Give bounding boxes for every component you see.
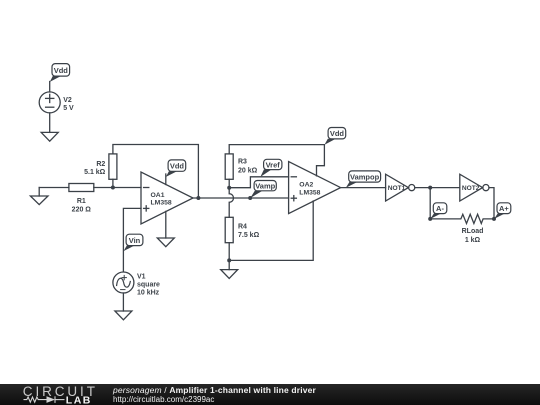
svg-text:V2: V2	[63, 97, 72, 104]
footer title text	[113, 385, 316, 395]
label R1 220 ohm	[72, 198, 92, 213]
ground (OA1 V-)	[157, 238, 174, 247]
op-amp OA2	[289, 162, 341, 214]
svg-text:Vref: Vref	[266, 160, 281, 169]
svg-text:220 Ω: 220 Ω	[72, 207, 92, 214]
wire node to ground	[228, 260, 230, 269]
inverter NOT2	[460, 174, 489, 201]
svg-text:R4: R4	[238, 224, 247, 231]
resistor R1	[69, 184, 94, 192]
svg-text:Vdd: Vdd	[170, 162, 185, 171]
svg-text:NOT2: NOT2	[462, 185, 480, 192]
footer url text	[113, 395, 214, 404]
wire OA2 output to NOT1	[341, 187, 386, 189]
wire NOT1 out to NOT2 in	[415, 187, 460, 189]
node junction Vamp tap	[248, 196, 252, 200]
svg-text:10 kHz: 10 kHz	[137, 289, 160, 296]
net flag A-	[430, 203, 447, 219]
wire V2 bottom to ground	[49, 113, 51, 132]
svg-text:5 V: 5 V	[63, 105, 74, 112]
node junction OA1 output	[196, 196, 200, 200]
net flag A+	[494, 203, 511, 219]
net flag Vdd (at OA1 V+)	[166, 160, 186, 177]
wire A- branch down	[429, 188, 431, 219]
wire divider to OA2 inverting input (Vref net)	[229, 177, 288, 188]
svg-text:R3: R3	[238, 158, 247, 165]
svg-text:square: square	[137, 281, 160, 288]
svg-text:Vampop: Vampop	[350, 172, 380, 181]
svg-text:V1: V1	[137, 273, 146, 280]
svg-text:5.1 kΩ: 5.1 kΩ	[84, 169, 106, 176]
ground (below V2)	[41, 132, 58, 141]
op-amp OA1	[141, 172, 193, 224]
wire R1 to OA1 inverting input	[94, 187, 141, 189]
svg-text:1 kΩ: 1 kΩ	[465, 237, 481, 244]
wire divider node down with hop over output wire	[229, 188, 233, 218]
svg-text:A+: A+	[499, 204, 509, 213]
svg-text:R1: R1	[77, 198, 86, 205]
ground (below V1)	[115, 311, 132, 320]
resistor RLoad (zigzag)	[430, 214, 494, 223]
node junction A+	[492, 217, 496, 221]
resistor R2	[109, 154, 117, 179]
wire R4 bottom to ground node	[228, 243, 230, 261]
svg-text:NOT1: NOT1	[388, 185, 406, 192]
label RLoad 1 kohm	[462, 228, 484, 244]
net flag Vamp	[250, 181, 276, 199]
net flag Vdd (at OA2 V+)	[325, 128, 346, 145]
resistor R4	[225, 217, 233, 242]
wire OA1 output to OA2 + input	[193, 197, 289, 199]
wire V1 bottom to ground	[122, 293, 124, 311]
wire feedback R2 top over to OA1 output	[113, 145, 198, 199]
label OA2 LM358	[299, 182, 320, 197]
node junction A-	[428, 217, 432, 221]
svg-text:Vdd: Vdd	[330, 129, 345, 138]
svg-text:A-: A-	[436, 204, 444, 213]
node junction at R1/R2/OA1-	[111, 186, 115, 190]
svg-text:R2: R2	[96, 161, 105, 168]
svg-text:LM358: LM358	[299, 190, 320, 197]
svg-text:Vdd: Vdd	[54, 66, 69, 75]
wire OA1 + input	[123, 208, 141, 271]
source V1 (function generator)	[113, 272, 134, 293]
net flag Vref	[260, 159, 282, 177]
label V1 square 10 kHz	[137, 273, 160, 296]
wire ground node to OA2 V- pin	[229, 201, 313, 260]
node junction A- tap	[428, 186, 432, 190]
CircuitLab logo	[0, 384, 110, 405]
svg-text:RLoad: RLoad	[462, 228, 484, 235]
node junction R3/R4 divider	[227, 186, 231, 190]
label R2 5.1 kohm	[84, 161, 106, 176]
node junction R4/ground/OA2 V-	[227, 258, 231, 262]
label R4 7.5 kohm	[238, 224, 260, 240]
svg-text:LM358: LM358	[151, 200, 172, 207]
wire R3 bottom to divider node	[228, 179, 230, 187]
resistor R3	[225, 154, 233, 179]
svg-text:20 kΩ: 20 kΩ	[238, 168, 258, 175]
wire OA1 V- pin to ground	[165, 211, 167, 238]
svg-text:OA1: OA1	[151, 192, 165, 199]
svg-text:7.5 kΩ: 7.5 kΩ	[238, 232, 260, 239]
wire Vdd flag to V2 top	[49, 82, 51, 93]
wire ground to R1	[39, 187, 69, 189]
net flag Vin	[124, 234, 143, 251]
label V2 value 5 V	[63, 97, 74, 112]
label R3 20 kohm	[238, 158, 258, 174]
wire R2 bottom to junction	[112, 179, 114, 187]
wire R3 top to Vdd corner and OA2 V+ pin	[229, 145, 324, 176]
wire OA1 V+ pin	[165, 174, 167, 185]
svg-text:Vamp: Vamp	[255, 182, 275, 191]
svg-text:Vin: Vin	[129, 236, 141, 245]
label OA1 LM358	[151, 192, 172, 207]
voltage source V2	[39, 92, 60, 113]
svg-text:OA2: OA2	[299, 182, 313, 189]
net flag Vdd (top-left, at V2)	[50, 64, 70, 82]
svg-text:LAB: LAB	[66, 394, 92, 405]
net flag Vampop	[346, 171, 381, 188]
wire NOT2 out down to A+ node	[489, 188, 494, 219]
footer bar	[0, 384, 540, 405]
inverter NOT1	[386, 174, 415, 201]
ground (left of R1)	[30, 188, 48, 205]
ground (below R4)	[221, 270, 238, 279]
